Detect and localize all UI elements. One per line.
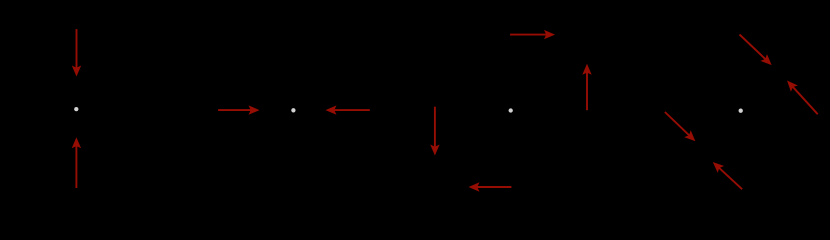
arrow A4 left (panel 2 right) (326, 105, 370, 114)
arrow A3 right (panel 2 left) (218, 105, 259, 114)
arrow A5 right (panel 3 top) (510, 30, 555, 39)
arrow A2 up (panel 1 bottom) (72, 137, 81, 188)
dot P4 (field point, panel 4) (739, 109, 743, 113)
arrow A11 down-right (panel 4 SW pair) (665, 112, 696, 141)
arrow A8 left (panel 3 bottom) (469, 182, 512, 191)
arrow A6 down (panel 3 left) (430, 107, 439, 156)
arrow A10 up-left (panel 4 NE pair) (787, 81, 818, 115)
dot P3 (field point, panel 3) (509, 108, 513, 112)
dot P1 (field point, panel 1) (74, 107, 78, 111)
arrow A7 up (panel 3 right) (582, 64, 591, 110)
arrow A1 down (panel 1 top) (72, 29, 81, 76)
arrow A12 up-left (panel 4 SW pair) (713, 162, 742, 189)
dot P2 (field point, panel 2) (291, 108, 295, 112)
arrow A9 down-right (panel 4 NE pair) (740, 35, 772, 66)
